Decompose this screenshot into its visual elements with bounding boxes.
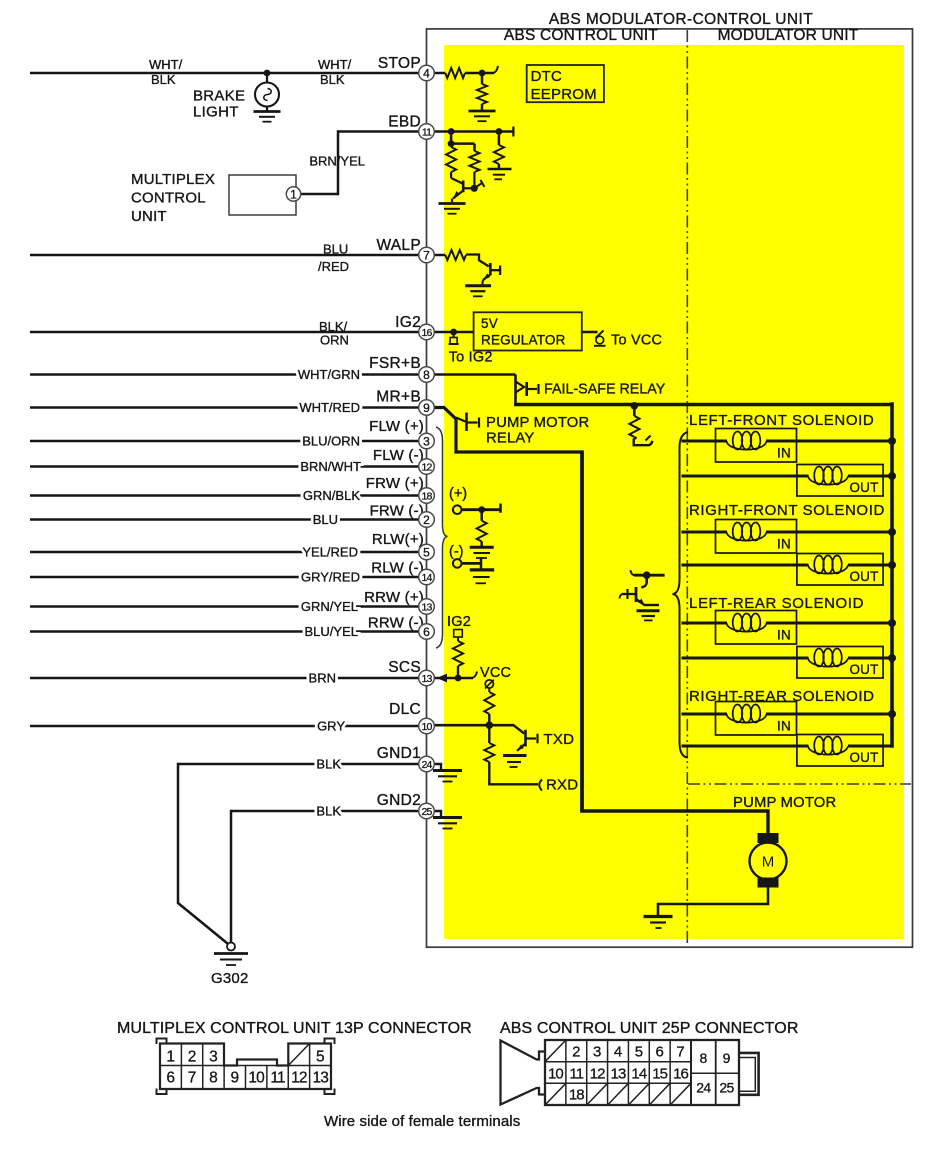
svg-text:16: 16 xyxy=(421,327,432,339)
svg-text:/RED: /RED xyxy=(318,259,349,274)
svg-text:3: 3 xyxy=(593,1044,601,1061)
svg-text:SCS: SCS xyxy=(388,659,421,676)
svg-text:OUT: OUT xyxy=(849,569,878,584)
svg-text:(+): (+) xyxy=(449,486,467,502)
svg-text:WHT/: WHT/ xyxy=(318,57,352,72)
svg-text:FRW (+): FRW (+) xyxy=(366,475,424,492)
svg-text:MULTIPLEX CONTROL UNIT 13P CON: MULTIPLEX CONTROL UNIT 13P CONNECTOR xyxy=(117,1020,472,1037)
svg-text:REGULATOR: REGULATOR xyxy=(481,333,566,348)
svg-text:DTC: DTC xyxy=(531,68,562,85)
svg-text:12: 12 xyxy=(291,1070,307,1087)
svg-text:16: 16 xyxy=(673,1066,688,1083)
svg-text:LEFT-FRONT SOLENOID: LEFT-FRONT SOLENOID xyxy=(689,412,874,429)
svg-text:13: 13 xyxy=(421,673,432,685)
svg-text:7: 7 xyxy=(423,248,430,262)
svg-text:2: 2 xyxy=(572,1044,580,1061)
svg-text:11: 11 xyxy=(422,126,432,138)
svg-text:EEPROM: EEPROM xyxy=(531,86,597,103)
svg-text:DLC: DLC xyxy=(389,701,421,718)
svg-text:LEFT-REAR SOLENOID: LEFT-REAR SOLENOID xyxy=(689,595,864,612)
svg-text:10: 10 xyxy=(421,721,432,733)
svg-text:Wire side of female terminals: Wire side of female terminals xyxy=(324,1113,520,1130)
svg-text:14: 14 xyxy=(421,572,432,584)
svg-text:GRN/YEL: GRN/YEL xyxy=(301,599,358,614)
svg-text:6: 6 xyxy=(656,1044,664,1061)
svg-text:15: 15 xyxy=(652,1066,667,1083)
svg-text:GRN/BLK: GRN/BLK xyxy=(303,488,360,503)
svg-text:YEL/RED: YEL/RED xyxy=(302,545,358,560)
svg-text:9: 9 xyxy=(231,1070,240,1087)
svg-text:OUT: OUT xyxy=(849,750,878,765)
svg-text:BLK: BLK xyxy=(316,757,341,772)
svg-text:5: 5 xyxy=(635,1044,643,1061)
svg-text:BLU/YEL: BLU/YEL xyxy=(305,624,358,639)
svg-text:IG2: IG2 xyxy=(395,314,421,331)
svg-text:ABS CONTROL UNIT: ABS CONTROL UNIT xyxy=(504,27,659,44)
svg-text:3: 3 xyxy=(423,434,430,448)
svg-text:WHT/: WHT/ xyxy=(149,57,183,72)
svg-text:12: 12 xyxy=(421,461,432,473)
svg-text:11: 11 xyxy=(270,1070,285,1087)
svg-text:BRN: BRN xyxy=(309,671,336,686)
svg-text:6: 6 xyxy=(423,625,430,639)
svg-text:RLW(+): RLW(+) xyxy=(372,531,424,548)
svg-text:BLK: BLK xyxy=(320,72,345,87)
svg-text:RRW (+): RRW (+) xyxy=(364,589,424,606)
svg-text:13: 13 xyxy=(312,1070,328,1087)
svg-text:BRN/WHT: BRN/WHT xyxy=(300,459,361,474)
svg-text:FSR+B: FSR+B xyxy=(369,355,421,372)
svg-text:To IG2: To IG2 xyxy=(449,350,493,366)
svg-text:FAIL-SAFE RELAY: FAIL-SAFE RELAY xyxy=(544,382,666,398)
svg-text:BRAKE: BRAKE xyxy=(193,88,245,105)
svg-text:13: 13 xyxy=(611,1066,626,1083)
svg-text:MODULATOR UNIT: MODULATOR UNIT xyxy=(718,27,859,44)
svg-text:UNIT: UNIT xyxy=(131,208,167,225)
svg-text:GND1: GND1 xyxy=(377,745,421,762)
svg-text:11: 11 xyxy=(569,1066,583,1083)
svg-text:2: 2 xyxy=(423,513,430,527)
svg-text:7: 7 xyxy=(676,1044,684,1061)
svg-text:MULTIPLEX: MULTIPLEX xyxy=(131,171,215,188)
svg-text:ABS MODULATOR-CONTROL UNIT: ABS MODULATOR-CONTROL UNIT xyxy=(549,11,813,28)
svg-text:5: 5 xyxy=(316,1048,325,1065)
svg-text:BLK: BLK xyxy=(151,72,176,87)
svg-text:ABS CONTROL UNIT 25P CONNECTOR: ABS CONTROL UNIT 25P CONNECTOR xyxy=(500,1020,798,1037)
svg-text:STOP: STOP xyxy=(378,55,421,72)
svg-text:(-): (-) xyxy=(449,544,464,560)
svg-text:9: 9 xyxy=(423,401,430,415)
svg-text:24: 24 xyxy=(696,1080,711,1096)
svg-text:MR+B: MR+B xyxy=(376,389,421,406)
svg-text:LIGHT: LIGHT xyxy=(193,104,239,121)
svg-text:RXD: RXD xyxy=(546,777,578,794)
svg-text:WALP: WALP xyxy=(376,237,421,254)
svg-text:3: 3 xyxy=(209,1048,218,1065)
svg-text:1: 1 xyxy=(166,1048,175,1065)
svg-text:G302: G302 xyxy=(211,970,249,987)
svg-text:IN: IN xyxy=(777,628,791,643)
svg-text:To VCC: To VCC xyxy=(611,333,662,349)
svg-text:2: 2 xyxy=(188,1048,197,1065)
svg-text:12: 12 xyxy=(590,1066,605,1083)
svg-text:10: 10 xyxy=(548,1066,563,1083)
svg-text:BLK: BLK xyxy=(316,804,341,819)
svg-text:BLU: BLU xyxy=(313,512,338,527)
svg-text:1: 1 xyxy=(290,187,297,201)
svg-text:8: 8 xyxy=(423,368,430,382)
svg-text:TXD: TXD xyxy=(544,731,575,748)
svg-text:9: 9 xyxy=(723,1050,731,1066)
svg-text:IN: IN xyxy=(777,537,791,552)
svg-text:CONTROL: CONTROL xyxy=(131,190,206,207)
svg-text:OUT: OUT xyxy=(849,480,878,495)
svg-text:13: 13 xyxy=(421,601,432,613)
svg-text:4: 4 xyxy=(423,66,430,80)
svg-text:VCC: VCC xyxy=(480,665,511,681)
svg-text:IN: IN xyxy=(777,719,791,734)
svg-text:FRW (-): FRW (-) xyxy=(370,503,424,520)
svg-text:WHT/RED: WHT/RED xyxy=(299,400,360,415)
svg-text:GRY/RED: GRY/RED xyxy=(301,570,360,585)
svg-text:RRW (-): RRW (-) xyxy=(368,615,424,632)
svg-text:RELAY: RELAY xyxy=(486,431,534,447)
svg-text:IN: IN xyxy=(777,446,791,461)
svg-text:RIGHT-FRONT SOLENOID: RIGHT-FRONT SOLENOID xyxy=(689,502,885,519)
svg-text:8: 8 xyxy=(700,1050,708,1066)
svg-text:FLW (-): FLW (-) xyxy=(373,447,424,464)
svg-text:OUT: OUT xyxy=(849,662,878,677)
svg-text:BLU: BLU xyxy=(323,242,348,257)
svg-text:25: 25 xyxy=(421,806,432,818)
svg-text:GND2: GND2 xyxy=(377,792,421,809)
svg-text:RLW (-): RLW (-) xyxy=(371,560,424,577)
svg-text:14: 14 xyxy=(631,1066,646,1083)
svg-text:5V: 5V xyxy=(481,316,498,331)
svg-text:FLW (+): FLW (+) xyxy=(369,418,424,435)
svg-text:5: 5 xyxy=(423,545,430,559)
svg-text:25: 25 xyxy=(719,1080,734,1096)
svg-text:PUMP MOTOR: PUMP MOTOR xyxy=(733,795,836,811)
svg-text:6: 6 xyxy=(166,1070,175,1087)
svg-text:8: 8 xyxy=(209,1070,218,1087)
svg-text:4: 4 xyxy=(614,1044,622,1061)
svg-text:10: 10 xyxy=(248,1070,265,1087)
svg-text:M: M xyxy=(762,854,775,871)
svg-text:EBD: EBD xyxy=(388,114,421,131)
svg-text:7: 7 xyxy=(188,1070,197,1087)
svg-text:BLU/ORN: BLU/ORN xyxy=(302,434,360,449)
svg-text:RIGHT-REAR SOLENOID: RIGHT-REAR SOLENOID xyxy=(689,688,875,705)
svg-text:24: 24 xyxy=(421,759,432,771)
svg-text:ORN: ORN xyxy=(320,333,349,348)
svg-text:PUMP MOTOR: PUMP MOTOR xyxy=(486,415,589,431)
svg-text:GRY: GRY xyxy=(317,719,345,734)
svg-text:18: 18 xyxy=(569,1087,584,1104)
svg-text:WHT/GRN: WHT/GRN xyxy=(298,367,360,382)
svg-text:18: 18 xyxy=(421,490,432,502)
svg-text:IG2: IG2 xyxy=(447,614,471,630)
